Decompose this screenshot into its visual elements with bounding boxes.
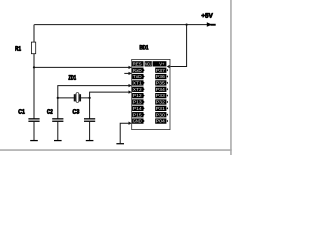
svg-text:MCU: MCU — [145, 61, 151, 66]
svg-text:TxD: TxD — [133, 74, 142, 79]
svg-text:C1: C1 — [18, 110, 25, 116]
svg-text:RxD: RxD — [133, 68, 142, 73]
svg-text:P04: P04 — [156, 119, 166, 124]
svg-text:P34: P34 — [156, 87, 166, 92]
svg-text:V+: V+ — [159, 61, 165, 66]
svg-text:+5V: +5V — [201, 13, 213, 20]
svg-text:RES: RES — [133, 61, 142, 66]
svg-text:P31: P31 — [156, 106, 166, 111]
svg-text:P35: P35 — [156, 80, 166, 85]
svg-text:P14: P14 — [133, 106, 143, 111]
svg-text:P36: P36 — [156, 74, 166, 79]
svg-text:R1: R1 — [15, 46, 21, 53]
svg-text:XT1: XT1 — [133, 80, 143, 85]
svg-text:P12: P12 — [133, 93, 143, 98]
svg-text:BD1: BD1 — [139, 45, 148, 52]
svg-text:P37: P37 — [156, 68, 166, 73]
svg-text:C3: C3 — [72, 110, 80, 116]
svg-text:XT2: XT2 — [133, 87, 143, 92]
svg-text:P13: P13 — [133, 100, 143, 105]
svg-text:P15: P15 — [133, 112, 143, 117]
svg-text:P32: P32 — [156, 100, 166, 105]
svg-text:C2: C2 — [47, 110, 53, 116]
svg-text:ZD1: ZD1 — [68, 75, 76, 82]
svg-text:P33: P33 — [156, 93, 166, 98]
svg-text:GND: GND — [133, 119, 142, 124]
svg-text:P30: P30 — [156, 112, 166, 117]
